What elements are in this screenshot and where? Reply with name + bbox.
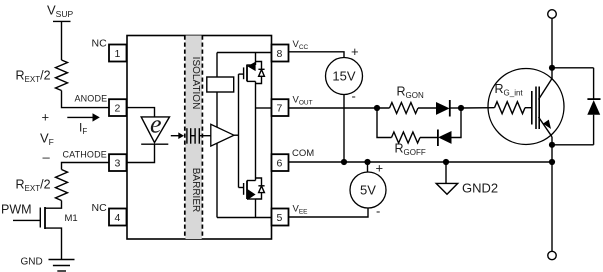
inner box left edge [216, 53, 218, 218]
gate drive line [238, 74, 240, 187]
pin 7 internal wire [256, 107, 272, 109]
svg-text:CATHODE: CATHODE [63, 150, 107, 160]
inner box bottom rail [217, 217, 272, 219]
svg-text:BARRIER: BARRIER [190, 168, 201, 212]
pin 1 box [109, 45, 127, 62]
wire gate to module [461, 107, 495, 109]
svg-text:PWM: PWM [1, 203, 32, 217]
svg-text:M1: M1 [65, 213, 78, 224]
resistor R_GON [390, 103, 419, 114]
resistor R_EXT/2 lower [56, 170, 68, 201]
diode D2 [437, 130, 439, 147]
supply terminal V_SUP [53, 20, 71, 22]
wire cathode [62, 163, 110, 170]
svg-text:+: + [376, 161, 384, 176]
svg-text:6: 6 [277, 158, 283, 170]
node COM GND2 [443, 159, 449, 165]
svg-text:8: 8 [277, 48, 283, 60]
collector rail [548, 10, 557, 19]
node V_OUT junction [374, 105, 380, 111]
isolation capacitors [186, 128, 188, 144]
transistor M1 [13, 219, 40, 221]
terminal bottom [548, 251, 556, 259]
svg-text:1: 1 [115, 48, 121, 60]
wire to D1 [418, 107, 436, 109]
resistor R_EXT/2 upper [56, 60, 68, 91]
IGBT module circle [488, 69, 564, 145]
LED emitter triangle [141, 117, 169, 143]
IC gate driver outline [127, 36, 272, 240]
svg-text:NC: NC [92, 202, 108, 214]
LED cathode bar [141, 143, 168, 145]
svg-text:COM: COM [292, 148, 314, 159]
svg-text:3: 3 [115, 158, 121, 170]
svg-text:+: + [42, 110, 50, 125]
svg-text:-: - [352, 89, 356, 104]
svg-text:ISOLATION: ISOLATION [190, 57, 201, 110]
node COM 5V [364, 159, 370, 165]
svg-text:-: - [376, 204, 380, 219]
supply 5V circle [350, 172, 386, 208]
pin 4 box [109, 209, 127, 226]
pin 5 box [272, 209, 289, 226]
wire anode [62, 91, 110, 108]
resistor R_G_int [495, 102, 526, 114]
emitter rail [551, 137, 553, 252]
pin 6 box [272, 154, 289, 171]
ground GND2 [445, 162, 447, 183]
svg-text:GND2: GND2 [462, 181, 498, 196]
output PMOS [243, 67, 245, 79]
pin 7 box [272, 99, 289, 116]
svg-text:–: – [43, 150, 51, 165]
IGBT Q1 [531, 91, 533, 125]
R_GOFF branch [377, 108, 392, 138]
svg-text:NC: NC [92, 38, 108, 50]
wire caps to buffer [199, 135, 211, 137]
svg-text:5V: 5V [360, 183, 376, 198]
svg-text:ANODE: ANODE [75, 94, 108, 104]
supply 5V stub [367, 162, 369, 172]
supply 15V wire [289, 52, 345, 58]
resistor R_GOFF [392, 132, 421, 143]
drain column to pin7 and NMOS [255, 81, 257, 180]
isolation barrier band [185, 36, 202, 240]
buffer amplifier [211, 124, 234, 146]
inner box top rail [217, 52, 272, 54]
COM wire [289, 161, 553, 163]
LED emitter anode wire [127, 108, 155, 117]
svg-text:e: e [150, 110, 162, 139]
diode D1 [436, 102, 450, 115]
supply 15V circle [326, 58, 363, 95]
svg-text:2: 2 [115, 103, 121, 115]
svg-text:+: + [351, 44, 359, 59]
svg-text:GND: GND [21, 257, 43, 268]
svg-text:15V: 15V [332, 69, 355, 84]
pin 2 box [109, 99, 127, 116]
pin 3 box [109, 154, 127, 171]
svg-text:4: 4 [115, 212, 121, 224]
svg-text:5: 5 [277, 212, 283, 224]
wire to D2 [420, 137, 438, 139]
svg-text:7: 7 [277, 103, 283, 115]
freewheel diode D3 [593, 68, 595, 100]
node COM emitter [549, 159, 555, 165]
wire drain to resistor [45, 201, 62, 209]
V_OUT wire [289, 107, 390, 109]
current arrow I_F shaft [67, 116, 93, 118]
node collector [549, 65, 555, 71]
node gate net [458, 105, 464, 111]
wire 15V minus to COM [343, 95, 345, 163]
wire V_EE [289, 208, 369, 217]
PMOS body diode [256, 62, 262, 70]
coupling arrow [171, 135, 179, 137]
node COM 15V [341, 159, 347, 165]
ground GND [49, 259, 75, 261]
output NMOS [243, 183, 245, 195]
UVLO block [207, 77, 234, 92]
pin 8 box [272, 45, 289, 62]
NMOS body diode [256, 178, 262, 186]
node emitter diode [549, 142, 555, 148]
LED cathode wire [127, 144, 155, 162]
